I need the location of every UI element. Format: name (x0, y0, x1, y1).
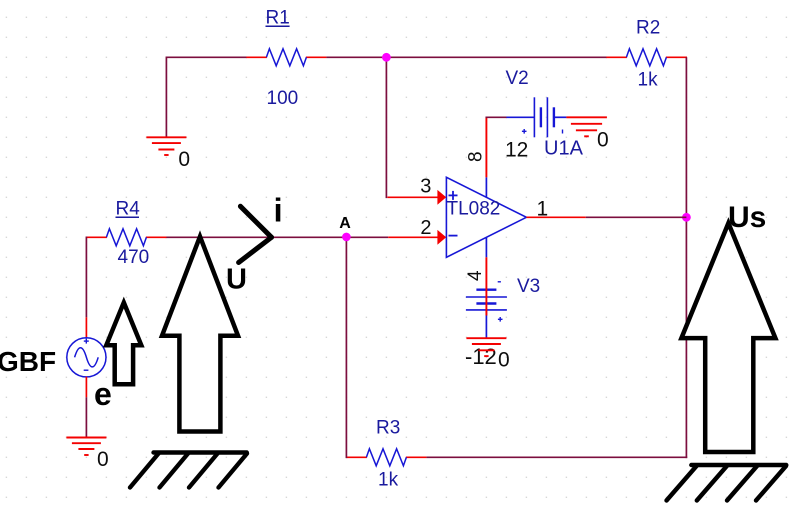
resistor R2 (606, 49, 687, 66)
svg-text:R3: R3 (376, 418, 400, 439)
wire bottom horizontal from R3 to right vertical (426, 456, 687, 458)
ground 0 (right of V2) (566, 117, 607, 136)
wire from source to ground below (85, 397, 87, 436)
svg-text:0: 0 (597, 129, 609, 152)
output red lead pin 1 (526, 216, 585, 218)
resistor R3 (346, 449, 426, 466)
svg-text:0: 0 (498, 349, 510, 372)
svg-text:V3: V3 (517, 276, 540, 297)
svg-text:2: 2 (420, 217, 431, 239)
junction dot at R1/R2 node (382, 53, 391, 62)
pin 3 input stub with arrowhead (387, 196, 438, 198)
wire from R1 to R2 across junction (326, 56, 607, 58)
wire output to junction (586, 216, 687, 218)
chassis ground (bottom-left) (130, 453, 247, 488)
ground 0 (top-left) (146, 137, 186, 155)
svg-text:0: 0 (178, 148, 190, 171)
wire vertical from R4 corner down to GBF source (85, 237, 87, 318)
wire right vertical from output junction down to R3 level (685, 217, 687, 458)
wire vertical down to ground 0 top-left (165, 57, 167, 137)
wire pin 4 red vertical over battery top (485, 257, 487, 315)
svg-text:U1A: U1A (544, 138, 584, 160)
wire vertical from junction down to pin3 level (385, 57, 387, 198)
svg-text:R2: R2 (636, 18, 660, 39)
wire pin 8 red vertical (485, 117, 487, 178)
svg-text:V2: V2 (506, 68, 529, 89)
ground 0 (below V3) (466, 338, 506, 356)
wire horizontal from R4 to op-amp pin2 through node A (166, 236, 389, 238)
svg-text:470: 470 (118, 247, 150, 268)
battery V3 (466, 282, 507, 338)
chassis ground (bottom-right) (667, 465, 787, 501)
wire right vertical from R2 corner down to output junction (685, 57, 687, 217)
svg-text:R4: R4 (116, 199, 141, 220)
voltage arrow U (162, 237, 238, 432)
resistor R4 (86, 229, 166, 246)
svg-text:GBF: GBF (0, 346, 56, 377)
svg-text:R1: R1 (266, 8, 290, 29)
svg-text:3: 3 (420, 175, 431, 197)
red lead from source bottom (85, 377, 87, 398)
op-amp U1A TL082 (446, 177, 526, 257)
svg-text:e: e (94, 376, 112, 412)
resistor R1 (246, 49, 326, 66)
svg-text:0: 0 (97, 448, 109, 471)
svg-text:U: U (226, 264, 247, 296)
junction dot at op-amp output node (682, 213, 691, 222)
wire vertical from node A down to R3 (345, 237, 347, 459)
wire pin 8 corner to battery V2 (486, 116, 507, 118)
svg-text:TL082: TL082 (447, 198, 501, 219)
battery V2 (506, 97, 566, 137)
ground 0 (below GBF) (66, 438, 106, 456)
red lead into source top (85, 317, 87, 338)
svg-text:12: 12 (505, 138, 528, 161)
svg-text:1k: 1k (378, 470, 399, 491)
svg-text:1k: 1k (638, 70, 659, 91)
current arrow i (chevron on wire) (239, 206, 272, 262)
voltage arrow Us (681, 223, 775, 452)
node A junction dot (342, 233, 351, 242)
svg-text:A: A (339, 215, 351, 232)
svg-text:i: i (274, 192, 283, 229)
svg-text:-12: -12 (465, 344, 497, 369)
voltage arrow e (106, 303, 141, 385)
pin 2 input stub with arrowhead (388, 236, 438, 238)
svg-text:100: 100 (267, 88, 299, 109)
svg-text:8: 8 (465, 151, 486, 162)
wire top-left horizontal to R1 (166, 56, 247, 58)
svg-text:4: 4 (465, 270, 486, 281)
source GBF (AC sine source) (67, 338, 106, 377)
svg-text:Us: Us (728, 201, 766, 234)
